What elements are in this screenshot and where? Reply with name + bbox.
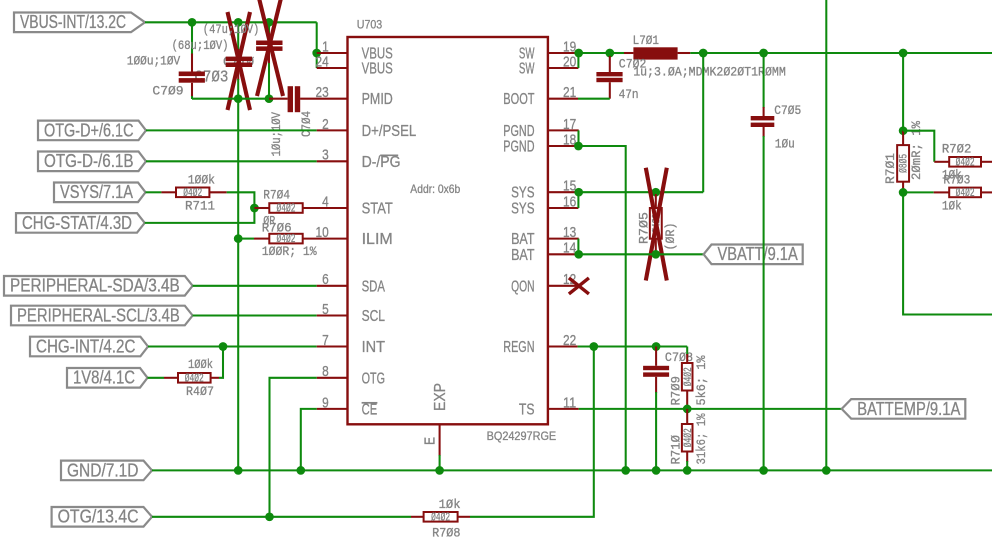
- svg-text:OTG: OTG: [362, 370, 385, 387]
- svg-text:VBATT/9.1A: VBATT/9.1A: [718, 244, 798, 264]
- svg-text:(68u;1ØV): (68u;1ØV): [172, 38, 229, 53]
- svg-text:4: 4: [322, 194, 329, 210]
- svg-text:SYS: SYS: [511, 185, 534, 202]
- svg-text:E: E: [423, 437, 439, 445]
- svg-text:STAT: STAT: [362, 201, 393, 218]
- net label CHG-STAT/4.3D: [16, 213, 145, 233]
- svg-text:D-/PG: D-/PG: [362, 154, 401, 171]
- net label 1V8/4.1C: [67, 368, 148, 388]
- junction TS divider: [683, 405, 692, 414]
- pin 20 lead+bracket: [548, 67, 579, 69]
- junction PMID at C710: [234, 94, 243, 103]
- svg-text:6: 6: [322, 272, 329, 288]
- capacitor C702 leads: [609, 53, 611, 57]
- cross-out X over C711: [257, 0, 283, 96]
- wire R702 to edge: [981, 161, 992, 163]
- svg-text:1ØØk: 1ØØk: [188, 357, 213, 372]
- svg-text:2: 2: [322, 117, 329, 133]
- net label GND/7.1D: [61, 461, 152, 481]
- wire vertical from top to GND: [825, 0, 827, 470]
- wire R701 top lead: [902, 131, 904, 145]
- junction BAT pins 13/14: [574, 250, 583, 259]
- svg-text:C7Ø4: C7Ø4: [299, 111, 314, 137]
- op-amp IC U703 body: [348, 37, 548, 424]
- wire PMID to C704: [269, 98, 288, 100]
- wire R708 left lead: [411, 516, 424, 518]
- pin EXP lead: [439, 424, 441, 456]
- svg-text:47n: 47n: [619, 87, 639, 102]
- junction R701 top: [899, 126, 908, 135]
- wire VBUS top rail: [192, 21, 317, 23]
- svg-text:BATTEMP/9.1A: BATTEMP/9.1A: [857, 399, 960, 419]
- net label OTG-D+/6.1C: [38, 121, 146, 141]
- wire R709 to TS: [686, 391, 688, 409]
- resistor R702 body: [949, 157, 981, 167]
- svg-text:BQ24297RGE: BQ24297RGE: [487, 429, 557, 443]
- svg-text:PMID: PMID: [362, 91, 393, 108]
- junction SW pins 19/20: [574, 49, 583, 58]
- capacitor C704 plates: [288, 86, 293, 112]
- pin 21 lead: [548, 98, 578, 100]
- net label PERIPHERAL-SDA/3.4B: [4, 276, 193, 296]
- svg-text:C7Ø5: C7Ø5: [774, 103, 801, 118]
- svg-text:R7Ø2: R7Ø2: [942, 142, 972, 157]
- junction CHG-INT / R407: [219, 342, 228, 351]
- svg-text:24: 24: [316, 54, 329, 70]
- junction GND at right drop: [822, 466, 831, 475]
- svg-text:R711: R711: [185, 199, 215, 214]
- wire R701 bottom lead: [902, 182, 904, 193]
- wire R704 to pin 4: [303, 207, 348, 209]
- capacitor C710 plates: [226, 57, 252, 62]
- svg-text:C7Ø9: C7Ø9: [152, 84, 183, 99]
- svg-text:SCL: SCL: [362, 308, 385, 325]
- pin 22 lead: [548, 345, 578, 347]
- svg-text:R7Ø3: R7Ø3: [943, 173, 970, 188]
- svg-text:GND/7.1D: GND/7.1D: [67, 460, 139, 480]
- capacitor C705 leads: [763, 53, 765, 108]
- cross-out X over C710: [228, 12, 251, 110]
- svg-text:1Øk: 1Øk: [439, 497, 461, 512]
- wire PGND drop to GND: [578, 146, 625, 470]
- wire R703 tap: [903, 191, 934, 193]
- junction ILIM tap: [234, 234, 243, 243]
- junction STAT node: [250, 204, 259, 213]
- svg-text:(47u;1ØV): (47u;1ØV): [203, 22, 259, 37]
- svg-text:1ØØR; 1%: 1ØØR; 1%: [262, 244, 317, 259]
- junction PGND pins 17/18: [574, 142, 583, 151]
- svg-text:10: 10: [316, 225, 329, 241]
- svg-text:CHG-STAT/4.3D: CHG-STAT/4.3D: [22, 213, 132, 233]
- net label CHG-INT/4.2C: [30, 337, 148, 357]
- svg-text:SDA: SDA: [362, 278, 386, 295]
- capacitor C709 leads: [191, 22, 193, 55]
- svg-text:VBUS-INT/13.2C: VBUS-INT/13.2C: [20, 12, 126, 32]
- svg-text:1Øu;1ØV: 1Øu;1ØV: [269, 112, 284, 157]
- svg-text:Ø4Ø2: Ø4Ø2: [683, 428, 695, 447]
- svg-text:5k6; 1%: 5k6; 1%: [694, 355, 709, 405]
- svg-text:R4Ø7: R4Ø7: [186, 384, 214, 399]
- svg-text:VBUS: VBUS: [362, 61, 393, 78]
- svg-text:ILIM: ILIM: [362, 231, 393, 248]
- junction GND at PGND drop: [621, 466, 630, 475]
- svg-text:Ø4Ø2: Ø4Ø2: [431, 511, 450, 524]
- svg-text:31k6; 1%: 31k6; 1%: [694, 413, 709, 464]
- svg-text:BOOT: BOOT: [503, 91, 534, 108]
- wire 1V8 to R407: [148, 377, 165, 379]
- wire vertical from PMID to GND: [237, 99, 239, 471]
- wire STAT node to R704: [254, 207, 269, 209]
- svg-text:SYS: SYS: [511, 201, 534, 218]
- svg-text:1ØØu;1ØV: 1ØØu;1ØV: [127, 54, 181, 69]
- svg-text:VSYS/7.1A: VSYS/7.1A: [60, 182, 133, 202]
- svg-text:PGND: PGND: [503, 139, 534, 156]
- resistor R706 body: [269, 234, 302, 244]
- wire VBUS-INT to junction: [145, 21, 192, 23]
- svg-text:EXP: EXP: [432, 383, 449, 411]
- resistor R703 body: [949, 188, 981, 198]
- svg-text:9: 9: [322, 395, 329, 411]
- wire PERIPHERAL-SDA to pin 6: [193, 285, 317, 287]
- wire PERIPHERAL-SCL to pin 5: [193, 314, 317, 316]
- svg-text:1: 1: [322, 39, 329, 55]
- wire C704 to pin 23: [300, 98, 347, 100]
- svg-text:23: 23: [316, 85, 329, 101]
- wire CHG-STAT to STAT node: [145, 208, 255, 223]
- svg-text:5: 5: [322, 302, 329, 318]
- wire OTG rail left: [152, 516, 411, 518]
- resistor R710 body: [682, 424, 693, 452]
- svg-text:QON: QON: [511, 278, 534, 295]
- svg-text:L7Ø1: L7Ø1: [633, 33, 660, 48]
- wire R706 to pin 10: [303, 238, 348, 240]
- wire PMID rail: [192, 98, 269, 100]
- net label OTG-D-/6.1B: [38, 152, 146, 172]
- pin 1 lead: [317, 52, 348, 54]
- svg-text:PERIPHERAL-SCL/3.4B: PERIPHERAL-SCL/3.4B: [17, 305, 180, 325]
- svg-text:1V8/4.1C: 1V8/4.1C: [73, 368, 135, 388]
- svg-text:PGND: PGND: [503, 123, 534, 140]
- junction SYS at R705: [651, 188, 660, 197]
- pin 19 lead: [548, 52, 579, 54]
- resistor R709 body: [682, 363, 693, 391]
- net label OTG/13.4C: [52, 507, 152, 527]
- resistor R711 body: [176, 188, 209, 198]
- junction SYS rail at C705: [759, 49, 768, 58]
- svg-text:Ø4Ø2: Ø4Ø2: [277, 203, 296, 216]
- svg-text:R7Ø8: R7Ø8: [432, 526, 460, 541]
- wire REGN rail: [578, 345, 688, 347]
- wire SYS rail to R701: [902, 53, 904, 131]
- cross-out X over R705: [646, 168, 667, 281]
- wire R711 to corner: [209, 191, 226, 193]
- svg-text:Ø4Ø2: Ø4Ø2: [683, 367, 695, 386]
- svg-text:REGN: REGN: [503, 339, 534, 356]
- svg-text:U703: U703: [357, 17, 383, 31]
- net label VSYS/7.1A: [54, 183, 146, 203]
- junction PMID at C711: [265, 94, 274, 103]
- svg-text:R7Ø1: R7Ø1: [883, 153, 898, 184]
- capacitor C711 (not fitted) leads: [268, 22, 270, 34]
- wire VSYS to R711: [146, 191, 162, 193]
- wire R701 bottom to right edge: [903, 192, 992, 314]
- wire R703 to edge: [981, 191, 992, 193]
- svg-text:OTG/13.4C: OTG/13.4C: [58, 507, 139, 527]
- junction R701 bottom: [899, 188, 908, 197]
- pin 17 lead+bracket: [548, 129, 579, 131]
- svg-text:C7Ø3: C7Ø3: [194, 69, 228, 88]
- cross-out X on QON pin: [569, 278, 589, 294]
- svg-text:R7Ø5: R7Ø5: [636, 212, 651, 244]
- svg-text:BAT: BAT: [511, 231, 535, 248]
- pin 15 lead: [548, 191, 579, 193]
- wire pin 8 OTG down to OTG net: [317, 377, 348, 379]
- svg-text:R7Ø4: R7Ø4: [263, 188, 290, 203]
- net label VBUS-INT/13.2C: [14, 13, 145, 33]
- svg-text:1Øu: 1Øu: [775, 137, 795, 152]
- svg-text:(ØR): (ØR): [663, 223, 678, 251]
- wire R702 tap: [903, 131, 934, 162]
- svg-text:Addr: 0x6b: Addr: 0x6b: [410, 182, 460, 196]
- wire REGN corner to R709: [686, 347, 688, 356]
- wire CHG-INT to pin 7: [148, 345, 317, 347]
- svg-text:D+/PSEL: D+/PSEL: [362, 123, 417, 140]
- resistor R704 body: [269, 203, 302, 213]
- capacitor C708 plates: [643, 366, 669, 370]
- net label PERIPHERAL-SCL/3.4B: [11, 306, 193, 326]
- wire SYS rail: [579, 191, 656, 193]
- pin 16 lead+bracket: [548, 207, 579, 209]
- svg-text:INT: INT: [362, 339, 386, 356]
- inductor L701 body: [633, 47, 677, 59]
- wire L701 to SYS rail: [678, 52, 691, 54]
- wire to R706: [254, 238, 269, 240]
- svg-text:7: 7: [322, 333, 329, 349]
- svg-text:OTG-D+/6.1C: OTG-D+/6.1C: [44, 120, 134, 140]
- pin 18 lead: [548, 145, 579, 147]
- capacitor C708 leads: [655, 347, 657, 366]
- svg-text:R7Ø9: R7Ø9: [669, 376, 684, 406]
- svg-text:OTG-D-/6.1B: OTG-D-/6.1B: [44, 151, 134, 171]
- pin 12 QON lead: [548, 285, 579, 287]
- wire OTG-D- to pin 3: [146, 160, 317, 162]
- wire BAT to VBATT: [579, 253, 704, 255]
- junction top rail at C710: [234, 18, 243, 27]
- junction GND at EXP: [435, 466, 444, 475]
- wire pin 9 CE to GND: [317, 408, 348, 410]
- junction BAT at R705: [651, 250, 660, 259]
- capacitor C705 plates: [751, 116, 775, 120]
- wire SW to L701: [579, 52, 610, 54]
- wire vertical to R706: [238, 238, 254, 240]
- svg-text:8: 8: [322, 364, 329, 380]
- resistor R705 leads: [655, 194, 657, 208]
- wire TS to BATTEMP: [579, 408, 842, 410]
- capacitor C709 plates: [179, 72, 205, 77]
- junction GND at C705: [759, 466, 768, 475]
- svg-text:R71Ø: R71Ø: [669, 435, 684, 465]
- junction at pin 1: [312, 49, 321, 58]
- junction OTG net at pin 8 drop: [265, 512, 274, 521]
- capacitor C711 plates: [256, 41, 282, 46]
- svg-text:2ØmR; 1%: 2ØmR; 1%: [909, 121, 924, 180]
- svg-text:PERIPHERAL-SDA/3.4B: PERIPHERAL-SDA/3.4B: [10, 276, 180, 296]
- wire GND rail: [152, 469, 992, 471]
- net label VBATT/9.1A: [704, 245, 803, 265]
- svg-text:R7Ø6: R7Ø6: [262, 221, 292, 236]
- pin 24 lead: [317, 67, 348, 69]
- wire R708 right lead: [458, 516, 470, 518]
- junction SYS rail at R701: [899, 49, 908, 58]
- capacitor C710 (not fitted) leads: [237, 22, 239, 50]
- wire SYS riser: [702, 53, 704, 192]
- wire OTG rail to REGN riser: [470, 347, 594, 517]
- junction GND at left bus: [234, 466, 243, 475]
- resistor R708 body: [424, 512, 458, 522]
- junction SYS rail at riser: [699, 49, 708, 58]
- svg-text:C7Ø2: C7Ø2: [619, 57, 647, 72]
- junction REGN at OTG riser: [589, 342, 598, 351]
- junction SYS pins 15/16: [574, 188, 583, 197]
- svg-text:1Øk: 1Øk: [942, 199, 962, 214]
- svg-text:BAT: BAT: [511, 247, 535, 264]
- wire OTG-D+ to pin 2: [146, 129, 317, 131]
- junction GND at R710: [683, 466, 692, 475]
- junction GND at CE drop: [296, 466, 305, 475]
- svg-text:TS: TS: [519, 401, 535, 418]
- wire R407 to CHG-INT node: [211, 377, 219, 379]
- net label BATTEMP/9.1A: [842, 399, 966, 419]
- resistor R705 body: [650, 208, 662, 239]
- svg-text:CE: CE: [362, 401, 378, 418]
- resistor R701 body: [897, 145, 909, 182]
- junction REGN at C708: [652, 342, 661, 351]
- junction top rail at C711: [265, 18, 274, 27]
- svg-text:SW: SW: [519, 61, 535, 78]
- svg-text:CHG-INT/4.2C: CHG-INT/4.2C: [36, 336, 135, 356]
- capacitor C702 plates: [596, 72, 622, 76]
- resistor R407 body: [178, 373, 211, 383]
- pin 14 lead: [548, 253, 579, 255]
- pin 11 lead: [548, 408, 579, 410]
- resistor R710 leads: [686, 409, 688, 424]
- svg-text:3: 3: [322, 148, 329, 164]
- junction VBUS-INT at C709: [188, 18, 197, 27]
- svg-text:1ØØk: 1ØØk: [188, 173, 216, 188]
- wire VBUS down to pins 1/24: [316, 22, 318, 68]
- junction GND at C708: [652, 466, 661, 475]
- pin 13 lead+bracket: [548, 238, 579, 240]
- junction SW at C702: [605, 49, 614, 58]
